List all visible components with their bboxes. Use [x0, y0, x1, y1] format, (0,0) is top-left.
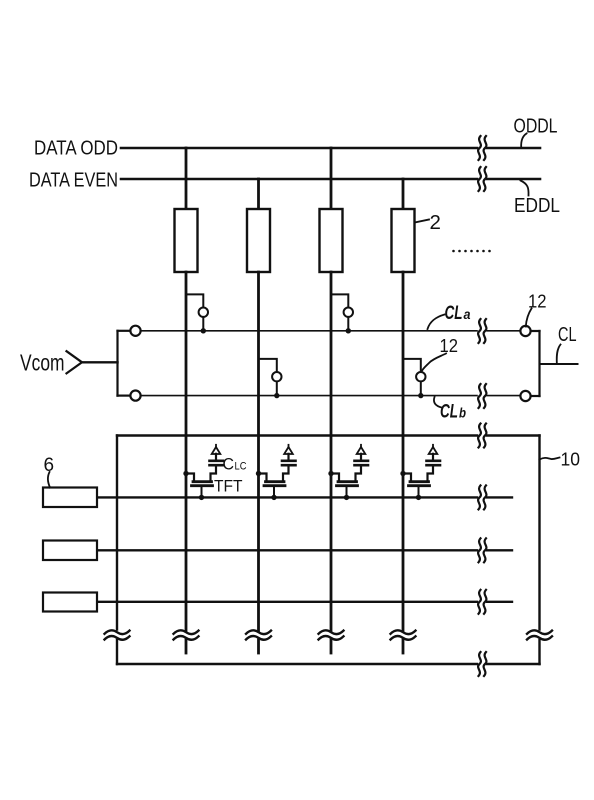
svg-text:CL: CL — [440, 402, 458, 423]
svg-text:12: 12 — [528, 292, 547, 312]
svg-text:b: b — [459, 405, 466, 421]
svg-text:DATA EVEN: DATA EVEN — [29, 169, 118, 192]
svg-text:Vcom: Vcom — [20, 350, 65, 376]
svg-text:ODDL: ODDL — [514, 115, 558, 138]
svg-text:DATA ODD: DATA ODD — [34, 137, 118, 160]
svg-text:TFT: TFT — [214, 477, 243, 496]
svg-text:CL: CL — [445, 303, 463, 324]
svg-text:a: a — [464, 307, 471, 322]
svg-text:CL: CL — [558, 323, 577, 346]
svg-text:6: 6 — [44, 455, 55, 476]
svg-text:12: 12 — [440, 336, 459, 356]
svg-text:EDDL: EDDL — [514, 194, 560, 217]
svg-text:10: 10 — [561, 450, 581, 470]
svg-text:2: 2 — [430, 211, 441, 234]
svg-text:LC: LC — [235, 461, 247, 473]
svg-text:C: C — [223, 456, 235, 474]
